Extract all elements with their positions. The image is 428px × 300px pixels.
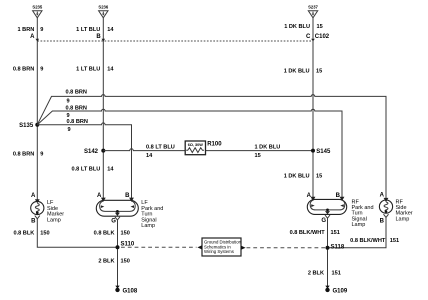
wire 0.8 BLK from LF side marker pin B to S110 — [37, 219, 117, 247]
svg-text:1 BRN: 1 BRN — [18, 27, 35, 33]
pin G fork terminal of RF park lamp — [321, 215, 330, 224]
pin A of C102 — [30, 34, 39, 42]
svg-text:S110: S110 — [121, 242, 135, 248]
svg-text:0.8 BRN: 0.8 BRN — [67, 119, 88, 125]
svg-text:9: 9 — [40, 27, 43, 33]
svg-text:1 LT BLU: 1 LT BLU — [76, 27, 100, 33]
pin G fork terminal of LF park lamp — [111, 217, 120, 225]
svg-text:A: A — [97, 193, 102, 199]
svg-text:9: 9 — [40, 67, 43, 73]
svg-text:G: G — [321, 218, 326, 224]
wire 0.8 BRN branch 3 from S135 to LF park lamp pin B — [37, 123, 131, 200]
pin B fork terminal of LF side marker — [31, 216, 40, 225]
label 1 LT BLU 14 — [76, 27, 114, 33]
svg-text:151: 151 — [331, 230, 340, 236]
splice S142 junction — [84, 149, 105, 156]
svg-text:B: B — [125, 193, 130, 199]
label 2 BLK 151 below S118 — [308, 270, 341, 276]
wire 1 LT BLU vertical from S236 to LF park lamp pin A — [102, 18, 104, 201]
svg-text:150: 150 — [121, 230, 130, 236]
svg-text:S142: S142 — [84, 149, 99, 155]
ground distribution reference box — [197, 238, 245, 256]
wire 0.8 BLK from LF park lamp pin G through S110 to G108 — [117, 220, 119, 290]
svg-text:G: G — [111, 219, 116, 225]
svg-text:A: A — [380, 193, 385, 199]
terminal arrow pin B LF park lamp — [129, 198, 134, 202]
label 1 BRN 9 — [18, 27, 44, 33]
svg-text:1 LT BLU: 1 LT BLU — [76, 67, 100, 73]
svg-text:9: 9 — [68, 127, 71, 133]
label 0.8 BRN 9 below C102 — [13, 67, 44, 73]
svg-text:S135: S135 — [19, 123, 34, 129]
label 0.8 BLK 150 on LF side marker ground wire — [13, 230, 49, 236]
svg-text:B: B — [31, 219, 36, 225]
svg-text:150: 150 — [40, 230, 49, 236]
svg-text:2 BLK: 2 BLK — [98, 258, 114, 264]
svg-text:0.8 BRN: 0.8 BRN — [13, 67, 34, 73]
splice S135 junction — [19, 123, 39, 130]
splice S110 junction — [116, 242, 135, 250]
label 1 DK BLU 15 below S145 — [284, 173, 323, 179]
svg-text:0.8 BLK: 0.8 BLK — [94, 230, 115, 236]
svg-text:B: B — [380, 218, 385, 224]
wire 0.8 BRN branch 1 from S135 to RF side marker pin A — [37, 95, 386, 199]
svg-text:Lamp: Lamp — [396, 216, 410, 222]
svg-text:151: 151 — [332, 270, 341, 276]
svg-text:14: 14 — [107, 67, 114, 73]
terminal arrow pin A LF park lamp — [101, 198, 106, 202]
label 2 BLK 150 below S110 — [98, 258, 130, 264]
svg-text:Lamp: Lamp — [141, 223, 155, 229]
label 0.8 BRN 9 on branch 2 — [66, 105, 87, 119]
terminal arrow pin B RF park lamp — [340, 197, 345, 201]
svg-text:15: 15 — [316, 173, 322, 179]
svg-text:A: A — [307, 193, 312, 199]
RF side marker lamp — [379, 199, 412, 222]
wire 0.8 BLK/WHT from RF side marker pin B to S118 — [328, 217, 387, 247]
svg-text:151: 151 — [390, 238, 399, 244]
splice S118 junction — [326, 244, 345, 250]
label 1 DK BLU 15 below C102 — [284, 68, 323, 74]
svg-text:1 DK BLU: 1 DK BLU — [284, 24, 310, 30]
svg-text:14: 14 — [107, 27, 114, 33]
svg-text:B: B — [336, 193, 341, 199]
pin C of C102 — [306, 34, 330, 42]
svg-text:9: 9 — [67, 99, 70, 105]
svg-text:S236: S236 — [98, 5, 108, 10]
svg-text:B: B — [96, 34, 101, 40]
ground G108 — [115, 286, 138, 295]
svg-text:R100: R100 — [207, 141, 222, 147]
label 0.8 BRN 9 on branch 3 — [67, 119, 88, 133]
RF park and turn signal lamp — [307, 199, 373, 228]
svg-text:6Ω, 30W: 6Ω, 30W — [188, 143, 203, 147]
svg-text:1 DK BLU: 1 DK BLU — [255, 144, 281, 150]
wire 1 DK BLU vertical from S237 to RF park lamp pin A — [312, 18, 314, 200]
svg-text:15: 15 — [255, 153, 261, 159]
svg-text:C102: C102 — [315, 34, 330, 40]
label 1 DK BLU 15 left of S145 — [255, 144, 281, 158]
label 1 DK BLU 15 — [284, 24, 323, 30]
svg-text:S235: S235 — [32, 5, 42, 10]
svg-text:0.8 LT BLU: 0.8 LT BLU — [146, 144, 175, 150]
svg-text:15: 15 — [317, 24, 323, 30]
svg-text:0.8 BRN: 0.8 BRN — [66, 90, 87, 96]
svg-text:A: A — [31, 193, 36, 199]
wire 0.8 LT BLU from S142 to R100 and S145 — [103, 149, 313, 151]
svg-text:14: 14 — [146, 153, 153, 159]
label 0.8 BLK/WHT 151 on RF side marker ground wire — [350, 238, 399, 244]
ground G109 — [325, 286, 348, 295]
LF park and turn signal lamp — [96, 200, 163, 229]
pin B of C102 — [96, 34, 105, 42]
resistor R100 — [185, 141, 222, 155]
svg-text:2 BLK: 2 BLK — [308, 270, 324, 276]
splice S236 off-page triangle — [98, 5, 108, 18]
svg-text:1 DK BLU: 1 DK BLU — [284, 173, 310, 179]
label 0.8 LT BLU 14 below S142 — [71, 166, 114, 172]
splice S145 junction — [311, 149, 331, 155]
svg-text:S118: S118 — [331, 244, 345, 250]
label 0.8 BRN 9 on left wire below S135 — [13, 151, 44, 157]
label 0.8 BLK 150 on LF park ground wire — [94, 230, 130, 236]
dashed wire from S110 to ground distribution box — [121, 246, 197, 248]
svg-text:0.8 BRN: 0.8 BRN — [13, 151, 34, 157]
terminal arrow pin A RF park lamp — [311, 197, 316, 201]
svg-text:0.8 BLK/WHT: 0.8 BLK/WHT — [350, 238, 386, 244]
label 0.8 BLK/WHT 151 on RF park ground wire — [290, 230, 340, 236]
terminal arrow into RF side marker — [384, 198, 389, 202]
svg-text:1 DK BLU: 1 DK BLU — [284, 68, 310, 74]
svg-text:0.8 LT BLU: 0.8 LT BLU — [71, 166, 100, 172]
label 0.8 BRN 9 on branch 1 — [66, 90, 87, 105]
svg-text:G108: G108 — [123, 289, 138, 295]
svg-text:Wiring Systems: Wiring Systems — [204, 249, 234, 254]
label 0.8 LT BLU 14 on horizontal wire — [146, 144, 175, 158]
svg-text:0.8 BLK/WHT: 0.8 BLK/WHT — [290, 230, 326, 236]
splice S237 off-page triangle — [308, 5, 318, 18]
dashed wire from ground distribution box to S118 — [247, 247, 326, 249]
svg-text:C: C — [306, 34, 311, 40]
svg-text:A: A — [30, 34, 35, 40]
svg-text:Lamp: Lamp — [352, 222, 366, 228]
svg-text:0.8 BRN: 0.8 BRN — [66, 105, 87, 111]
splice S235 off-page triangle — [32, 5, 42, 18]
svg-text:S237: S237 — [308, 5, 318, 10]
svg-text:150: 150 — [121, 258, 130, 264]
wire 1 BRN vertical from S235 to LF side marker — [36, 18, 38, 202]
svg-text:Lamp: Lamp — [47, 217, 61, 223]
pin B fork terminal of RF side marker — [380, 214, 389, 224]
label 1 LT BLU 14 below C102 — [76, 67, 114, 73]
wire 0.8 BRN branch 2 from S135 to RF park lamp pin B — [37, 109, 342, 199]
connector C102 dashed line — [37, 40, 313, 42]
LF side marker lamp — [31, 200, 65, 223]
svg-text:G109: G109 — [333, 289, 348, 295]
wire 0.8 BLK/WHT from RF park lamp pin G through S118 to G109 — [327, 218, 329, 290]
svg-text:0.8 BLK: 0.8 BLK — [13, 230, 34, 236]
svg-text:14: 14 — [107, 166, 114, 172]
svg-text:15: 15 — [316, 68, 322, 74]
svg-text:9: 9 — [40, 151, 43, 157]
svg-text:S145: S145 — [316, 149, 331, 155]
terminal arrow into LF side marker — [35, 199, 40, 203]
